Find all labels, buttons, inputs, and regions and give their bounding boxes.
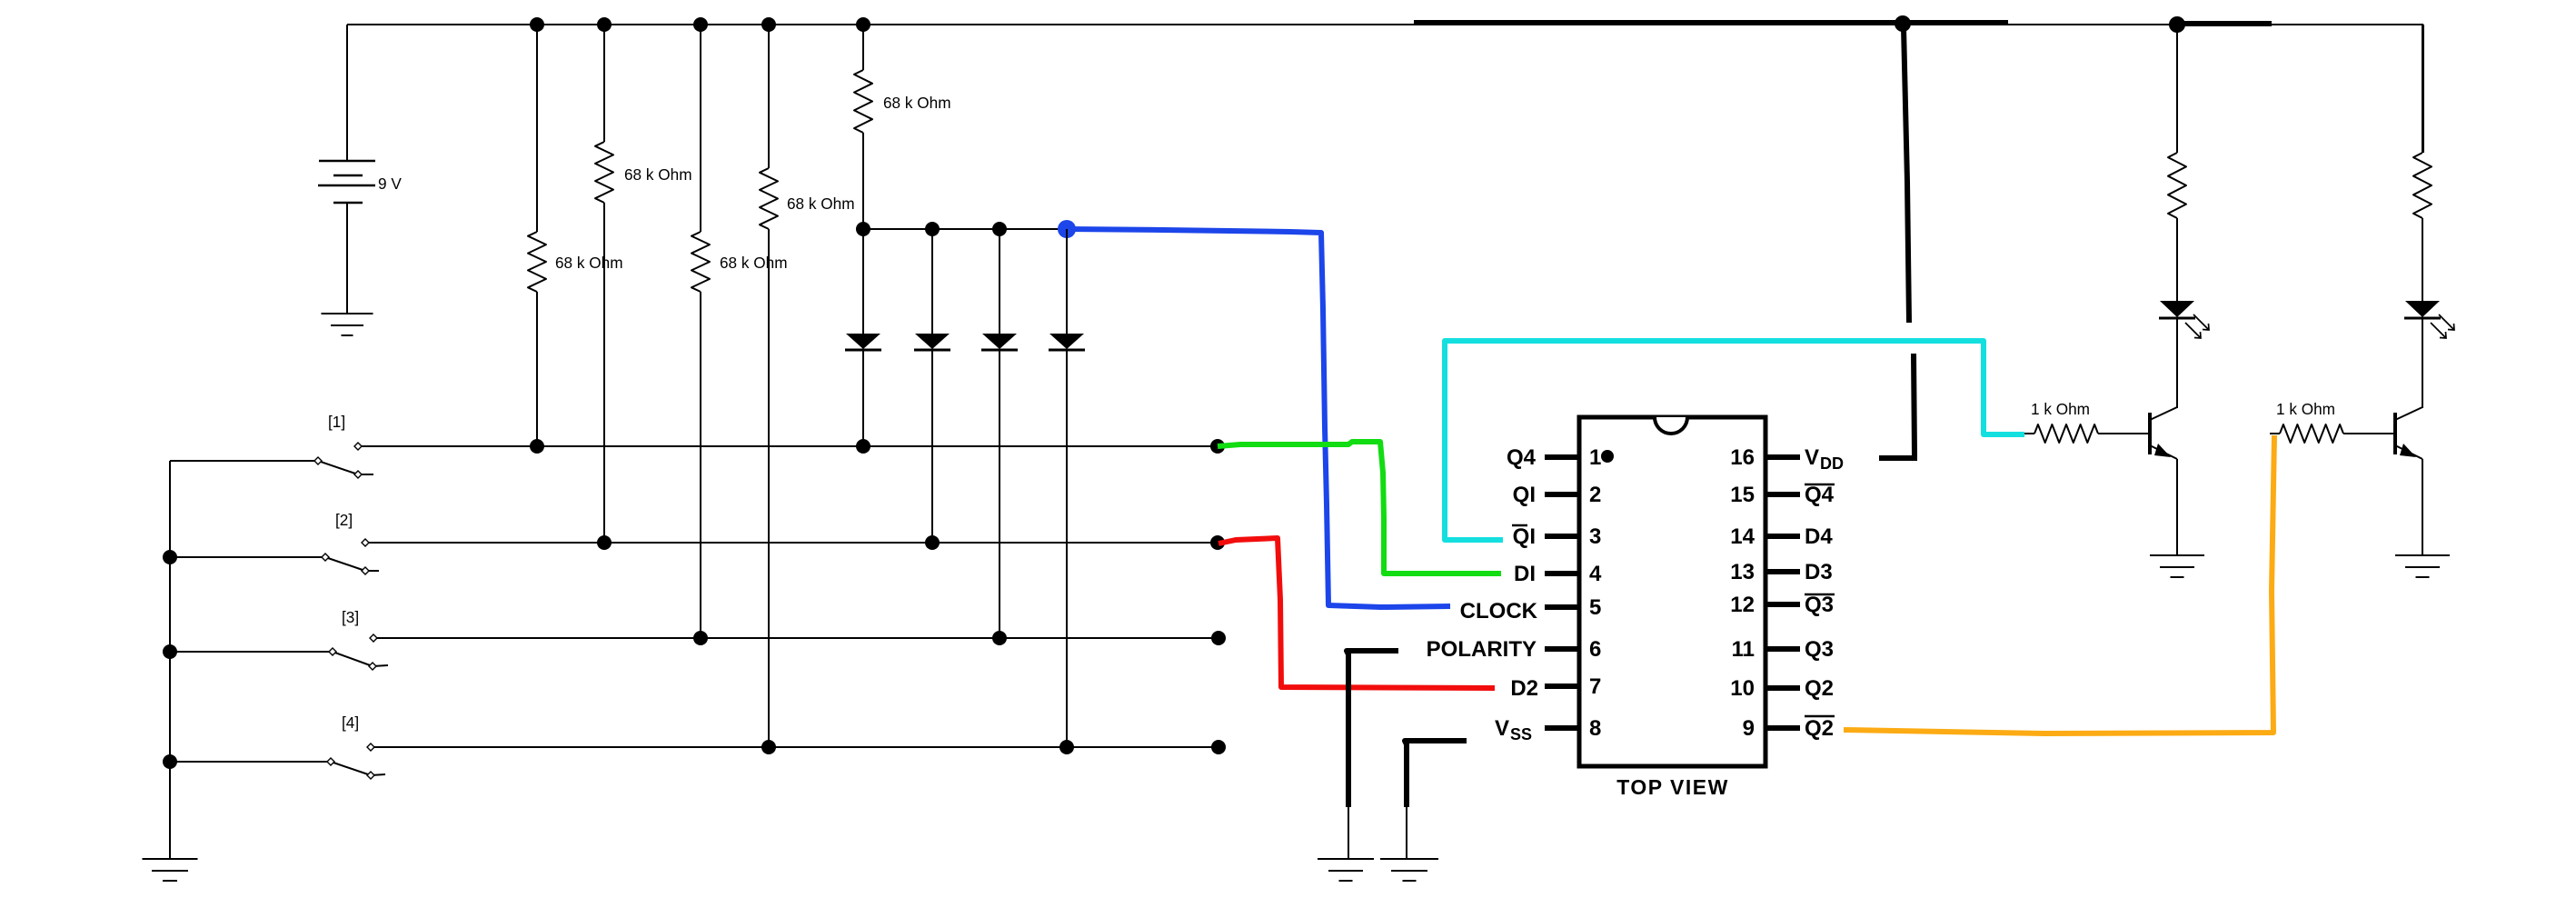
svg-text:[4]: [4] xyxy=(342,713,359,732)
svg-text:[2]: [2] xyxy=(335,511,353,529)
svg-text:15: 15 xyxy=(1730,483,1755,507)
svg-text:1: 1 xyxy=(1589,445,1601,470)
svg-text:Q4: Q4 xyxy=(1507,445,1537,470)
svg-text:Q3: Q3 xyxy=(1805,637,1834,662)
svg-text:3: 3 xyxy=(1589,524,1601,549)
svg-text:7: 7 xyxy=(1589,674,1601,699)
svg-text:12: 12 xyxy=(1730,593,1755,617)
svg-text:5: 5 xyxy=(1589,595,1601,620)
svg-text:13: 13 xyxy=(1730,560,1755,584)
svg-text:Q4: Q4 xyxy=(1805,483,1835,507)
svg-text:D2: D2 xyxy=(1510,676,1538,701)
svg-text:SS: SS xyxy=(1510,725,1532,743)
svg-text:QI: QI xyxy=(1513,483,1536,507)
svg-text:TOP VIEW: TOP VIEW xyxy=(1616,775,1729,799)
svg-text:DD: DD xyxy=(1820,454,1844,473)
svg-text:[3]: [3] xyxy=(342,608,359,626)
svg-text:Q2: Q2 xyxy=(1805,716,1834,741)
svg-text:[1]: [1] xyxy=(328,413,345,431)
svg-text:68 k Ohm: 68 k Ohm xyxy=(883,94,951,112)
svg-text:14: 14 xyxy=(1730,524,1755,549)
svg-text:D3: D3 xyxy=(1805,560,1833,584)
svg-text:16: 16 xyxy=(1730,445,1755,470)
svg-text:6: 6 xyxy=(1589,637,1601,662)
svg-text:9 V: 9 V xyxy=(378,175,402,193)
svg-text:11: 11 xyxy=(1732,637,1755,662)
svg-text:10: 10 xyxy=(1730,676,1755,701)
svg-text:POLARITY: POLARITY xyxy=(1427,637,1537,662)
svg-text:68 k Ohm: 68 k Ohm xyxy=(624,165,692,184)
svg-text:D4: D4 xyxy=(1805,524,1833,549)
svg-text:9: 9 xyxy=(1743,716,1755,741)
svg-text:1 k Ohm: 1 k Ohm xyxy=(2031,400,2090,418)
svg-text:Q3: Q3 xyxy=(1805,593,1834,617)
svg-text:68 k Ohm: 68 k Ohm xyxy=(787,195,855,213)
svg-text:V: V xyxy=(1495,716,1509,741)
svg-text:4: 4 xyxy=(1589,562,1602,586)
svg-text:CLOCK: CLOCK xyxy=(1460,599,1538,624)
svg-text:Q2: Q2 xyxy=(1805,676,1834,701)
svg-text:68 k Ohm: 68 k Ohm xyxy=(555,254,623,272)
svg-text:V: V xyxy=(1805,445,1819,470)
svg-text:68 k Ohm: 68 k Ohm xyxy=(720,254,788,272)
svg-text:1 k Ohm: 1 k Ohm xyxy=(2276,400,2335,418)
svg-text:8: 8 xyxy=(1589,716,1601,741)
svg-text:QI: QI xyxy=(1513,524,1536,549)
svg-text:DI: DI xyxy=(1514,562,1536,586)
svg-text:2: 2 xyxy=(1589,483,1601,507)
